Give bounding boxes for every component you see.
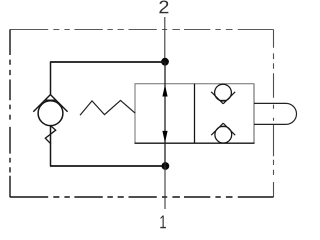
check valve CV1 spring: [45, 126, 55, 144]
enclosure boundary left edge: [9, 30, 11, 198]
port label 2: [159, 0, 168, 13]
check valve CV3 seat (pointing up): [211, 123, 235, 135]
check valve CV2 seat (pointing down): [211, 92, 235, 104]
wire below check valve: [50, 126, 52, 166]
check valve CV1 seat: [33, 95, 67, 112]
flow path line through left chamber: [164, 62, 166, 166]
flow arrow head up: [162, 85, 167, 97]
flow arrow head down: [162, 131, 167, 143]
port 2 line: [164, 17, 166, 62]
check valve CV2 circle (top of right chamber): [215, 84, 232, 101]
port 1 line: [164, 166, 166, 209]
node bottom junction: [162, 162, 170, 170]
valve body left chamber: [135, 84, 255, 144]
node top junction: [161, 58, 169, 66]
enclosure boundary top edge (phantom dash-dot border): [10, 29, 274, 31]
enclosure boundary right edge: [273, 30, 275, 198]
port label 1: [160, 215, 166, 228]
enclosure boundary bottom edge: [10, 196, 274, 198]
valve body right chamber: [135, 84, 255, 144]
wire bottom horizontal: [50, 165, 166, 167]
wire top horizontal: [50, 61, 165, 63]
wire left branch down to check valve: [50, 62, 52, 95]
check valve CV1 poppet circle: [38, 101, 63, 126]
pilot piston D-shape: [254, 103, 297, 124]
check valve CV3 circle (bottom of right chamber): [215, 126, 232, 143]
spring main (left of valve body): [80, 100, 135, 115]
